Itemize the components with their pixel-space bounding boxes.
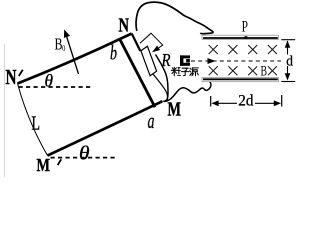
wire resistor to M [153, 74, 167, 101]
svg-text:L: L [32, 113, 41, 135]
beam dashed line [191, 60, 281, 62]
svg-text:θ: θ [45, 71, 54, 91]
dimension d label [285, 55, 294, 67]
R leader arrow [152, 46, 160, 53]
svg-text:θ: θ [79, 143, 90, 165]
rail N'N [18, 34, 132, 84]
field crosses row 1 [209, 45, 277, 54]
angle theta baseline at N' [19, 86, 93, 88]
dimension d arrow line [287, 41, 289, 80]
svg-text:N: N [6, 65, 17, 89]
svg-text:a: a [148, 108, 155, 133]
cloud boundary top [136, 2, 213, 34]
svg-text:B: B [261, 64, 268, 80]
rail M'M [48, 101, 163, 155]
plate P terminal [245, 36, 248, 39]
cloud boundary bottom [156, 55, 211, 102]
beam arrow [208, 58, 216, 64]
svg-text:b: b [110, 41, 117, 65]
left page edge artifact [4, 44, 6, 177]
particle source symbol [180, 55, 190, 65]
svg-text:0: 0 [62, 44, 65, 53]
svg-text:M: M [37, 155, 51, 175]
dimension d bottom tick [281, 81, 295, 83]
resistor R [141, 46, 157, 76]
field crosses row 2 [209, 66, 277, 75]
svg-text:2d: 2d [238, 93, 253, 110]
dimension d top tick [281, 39, 295, 41]
wire N to resistor [132, 34, 141, 52]
length L line [18, 84, 48, 156]
field B0 arrow [66, 36, 78, 75]
angle theta baseline at M' [51, 157, 119, 159]
plate bottom [202, 78, 279, 82]
dimension 2d arrows [213, 102, 237, 104]
svg-text:M: M [168, 99, 182, 121]
dimension 2d right tick [281, 95, 283, 107]
node N' prime [19, 70, 23, 76]
R leader line [140, 33, 163, 48]
plate P top [202, 35, 279, 39]
rod ab [119, 38, 155, 107]
glyph li (粒) [171, 67, 180, 76]
svg-text:P: P [242, 18, 248, 35]
node M' prime [58, 159, 62, 165]
svg-text:d: d [286, 54, 293, 70]
svg-text:N: N [119, 15, 130, 37]
particle source label (CJK 粒子源 drawn) [171, 67, 198, 76]
glyph yuan (源) [190, 68, 199, 76]
glyph zi (子) [181, 68, 188, 76]
dimension 2d left tick [210, 96, 212, 107]
